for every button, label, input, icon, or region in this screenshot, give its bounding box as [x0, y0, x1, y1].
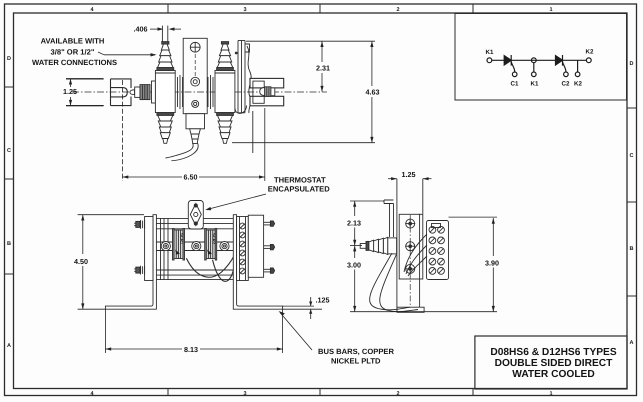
- diode D2: [556, 55, 569, 77]
- svg-text:AVAILABLE WITH: AVAILABLE WITH: [41, 36, 105, 45]
- left fitting body: [155, 70, 175, 112]
- svg-text:B: B: [630, 246, 634, 252]
- svg-text:C: C: [7, 148, 11, 154]
- note bus bars: [318, 347, 394, 366]
- left upper hose barbs: [157, 42, 174, 71]
- washer bolt center: [192, 242, 201, 251]
- left water tube stub: [161, 26, 163, 42]
- right lower hose barbs: [217, 113, 234, 144]
- svg-text:WATER CONNECTIONS: WATER CONNECTIONS: [32, 58, 117, 67]
- leader bus bars: [279, 311, 312, 350]
- svg-text:6.50: 6.50: [184, 173, 198, 182]
- diode D1: [504, 55, 517, 77]
- right ferrule: [271, 88, 275, 96]
- dim texts front view: [74, 257, 330, 354]
- svg-text:3.00: 3.00: [347, 261, 361, 270]
- svg-text:1.25: 1.25: [402, 170, 416, 179]
- thermostat body: [188, 201, 203, 230]
- node K2 tap: [575, 60, 580, 76]
- dim 1.25 left: [66, 79, 103, 106]
- terminal K1 left: [487, 58, 492, 63]
- washer bolt left: [161, 242, 170, 251]
- svg-text:C2: C2: [562, 81, 570, 88]
- svg-text:A: A: [7, 343, 11, 349]
- right bolt 2: [264, 244, 275, 249]
- schematic labels: [486, 49, 594, 88]
- svg-text:.125: .125: [316, 296, 330, 305]
- barb tube tip: [360, 244, 366, 249]
- dim 3.90: [449, 217, 498, 312]
- dim .406: [150, 27, 181, 30]
- right bolt 1: [264, 221, 275, 226]
- washer bolt right: [220, 242, 229, 251]
- dim 2.13: [350, 201, 384, 246]
- svg-text:DOUBLE SIDED DIRECT: DOUBLE SIDED DIRECT: [495, 358, 614, 369]
- svg-text:2.13: 2.13: [347, 219, 361, 228]
- dim 3.00: [350, 246, 497, 312]
- dim 8.13: [105, 309, 282, 353]
- bracket hook top: [384, 200, 394, 237]
- left bolt upper: [134, 220, 144, 229]
- stack tube body: [156, 218, 233, 279]
- svg-text:ENCAPSULATED: ENCAPSULATED: [268, 185, 330, 194]
- svg-text:2: 2: [396, 7, 399, 13]
- svg-text:.406: .406: [134, 25, 148, 34]
- terminal block outline: [427, 221, 449, 280]
- cell pointer marks: [175, 250, 180, 255]
- left bracket bus bar: [105, 215, 156, 310]
- note available with water connections: [32, 36, 117, 67]
- svg-text:4.50: 4.50: [74, 257, 88, 266]
- svg-text:BUS BARS, COPPER: BUS BARS, COPPER: [318, 347, 394, 356]
- left bolt lower: [134, 266, 144, 275]
- SCR labels on cells: [180, 233, 217, 245]
- dim 6.50: [123, 80, 265, 181]
- center plate bolt top: [190, 42, 200, 52]
- leader water connections: [98, 52, 157, 57]
- side foot: [397, 307, 424, 312]
- zone tick bottom: [168, 389, 473, 396]
- right washer column: [237, 217, 249, 281]
- title block box: [475, 336, 627, 389]
- dim 2.31: [246, 41, 375, 91]
- right bus bar top: [250, 78, 284, 88]
- left water fitting flange: [152, 81, 156, 103]
- right upper hose barbs: [217, 42, 234, 71]
- capillary hook under plate: [235, 106, 247, 114]
- svg-text:4.63: 4.63: [366, 88, 380, 97]
- side plate bolt 2: [405, 241, 415, 251]
- right bus plate edge-on: [238, 41, 245, 113]
- side plate bolt 3: [405, 264, 415, 274]
- svg-text:3.90: 3.90: [485, 259, 499, 268]
- side clamp plate: [399, 214, 423, 279]
- leader thermostat: [205, 194, 266, 210]
- right pin dome: [260, 88, 265, 96]
- schematic enclosure box: [455, 14, 627, 101]
- right knurled nut: [265, 87, 271, 97]
- capillary wavy wire right plate: [247, 46, 251, 113]
- right fitting body: [215, 70, 235, 112]
- leader line right of tower: [252, 111, 254, 153]
- terminal K2 right: [586, 58, 591, 63]
- left clamp end plate: [145, 217, 153, 281]
- svg-text:THERMOSTAT: THERMOSTAT: [274, 175, 326, 184]
- svg-text:3/8" OR 1/2": 3/8" OR 1/2": [51, 48, 95, 57]
- svg-text:K2: K2: [574, 81, 582, 88]
- centerline top view: [72, 91, 327, 93]
- svg-text:SCR2: SCR2: [212, 233, 217, 245]
- bracket edge verticals: [396, 179, 398, 313]
- thermostat wire pair: [166, 143, 194, 158]
- right bolt 3: [264, 268, 275, 273]
- svg-text:K2: K2: [586, 49, 594, 56]
- fitting back plate: [388, 238, 397, 254]
- dim texts side view: [347, 170, 499, 270]
- zone letters left: [7, 56, 11, 349]
- right bus bar bottom: [250, 96, 284, 106]
- terminal jumper wires: [404, 234, 427, 272]
- svg-text:D08HS6 & D12HS6 TYPES: D08HS6 & D12HS6 TYPES: [490, 347, 616, 358]
- svg-text:D: D: [630, 61, 634, 67]
- dim texts top view: [63, 25, 380, 182]
- center plate lower tab: [186, 114, 205, 129]
- right bracket bus bar: [233, 215, 282, 310]
- zone numbers bottom: [90, 391, 552, 397]
- ribbed compression nut: [140, 85, 150, 100]
- zone numbers top: [90, 7, 552, 13]
- dim 1.25 side: [388, 177, 432, 180]
- center plate centerline dashes: [194, 54, 196, 76]
- front wires: [186, 252, 236, 278]
- diode cell 2: [205, 229, 217, 261]
- svg-text:WATER COOLED: WATER COOLED: [512, 369, 594, 380]
- clevis pin ball: [130, 90, 135, 95]
- svg-text:3: 3: [243, 391, 246, 397]
- svg-text:SCR1: SCR1: [180, 233, 185, 245]
- zone tick top: [168, 4, 473, 13]
- dim 4.63: [232, 41, 375, 143]
- right plate clip: [245, 44, 250, 52]
- svg-text:2.31: 2.31: [316, 64, 330, 73]
- svg-text:C: C: [630, 153, 634, 159]
- center electrode plate: [183, 38, 207, 113]
- side wire loop 1: [370, 253, 410, 310]
- center plate bolt lower: [192, 100, 199, 107]
- side plate bolt 1: [405, 219, 415, 229]
- left bus bar edges: [66, 79, 104, 106]
- wire boot below tab: [190, 129, 201, 144]
- svg-text:1: 1: [549, 391, 552, 397]
- svg-text:8.13: 8.13: [184, 345, 198, 354]
- svg-text:3: 3: [243, 7, 246, 13]
- svg-text:B: B: [7, 241, 11, 247]
- svg-text:2: 2: [396, 391, 399, 397]
- svg-text:K1: K1: [486, 49, 494, 56]
- washer column bolts: [240, 223, 246, 274]
- svg-text:C1: C1: [511, 81, 519, 88]
- dim 4.50: [78, 215, 144, 310]
- note thermostat encapsulated: [268, 175, 330, 193]
- right end plate: [248, 215, 263, 277]
- ferrule washer: [135, 87, 140, 97]
- terminal screws grid: [429, 226, 444, 274]
- right clamp rings: [208, 75, 213, 109]
- right clamp block: [253, 81, 264, 103]
- diode cell 1: [173, 229, 185, 261]
- left lower hose barbs: [157, 113, 174, 144]
- side wire loop 2: [380, 255, 418, 312]
- center plate bolt middle: [191, 77, 200, 86]
- zone letters right: [630, 61, 634, 346]
- side hose barb: [366, 237, 388, 254]
- wire main bus: [492, 59, 587, 61]
- zone tick left: [5, 87, 14, 274]
- dim .125: [283, 297, 322, 319]
- svg-text:1.25: 1.25: [63, 87, 77, 96]
- node K1 center tap: [531, 58, 536, 77]
- svg-text:1: 1: [549, 7, 552, 13]
- left clamp rings: [178, 75, 183, 109]
- clevis fork left: [111, 79, 132, 106]
- zone tick right: [627, 108, 637, 296]
- svg-text:K1: K1: [531, 81, 539, 88]
- svg-text:A: A: [630, 340, 634, 346]
- svg-text:D: D: [7, 56, 11, 62]
- svg-text:NICKEL PLTD: NICKEL PLTD: [331, 357, 381, 366]
